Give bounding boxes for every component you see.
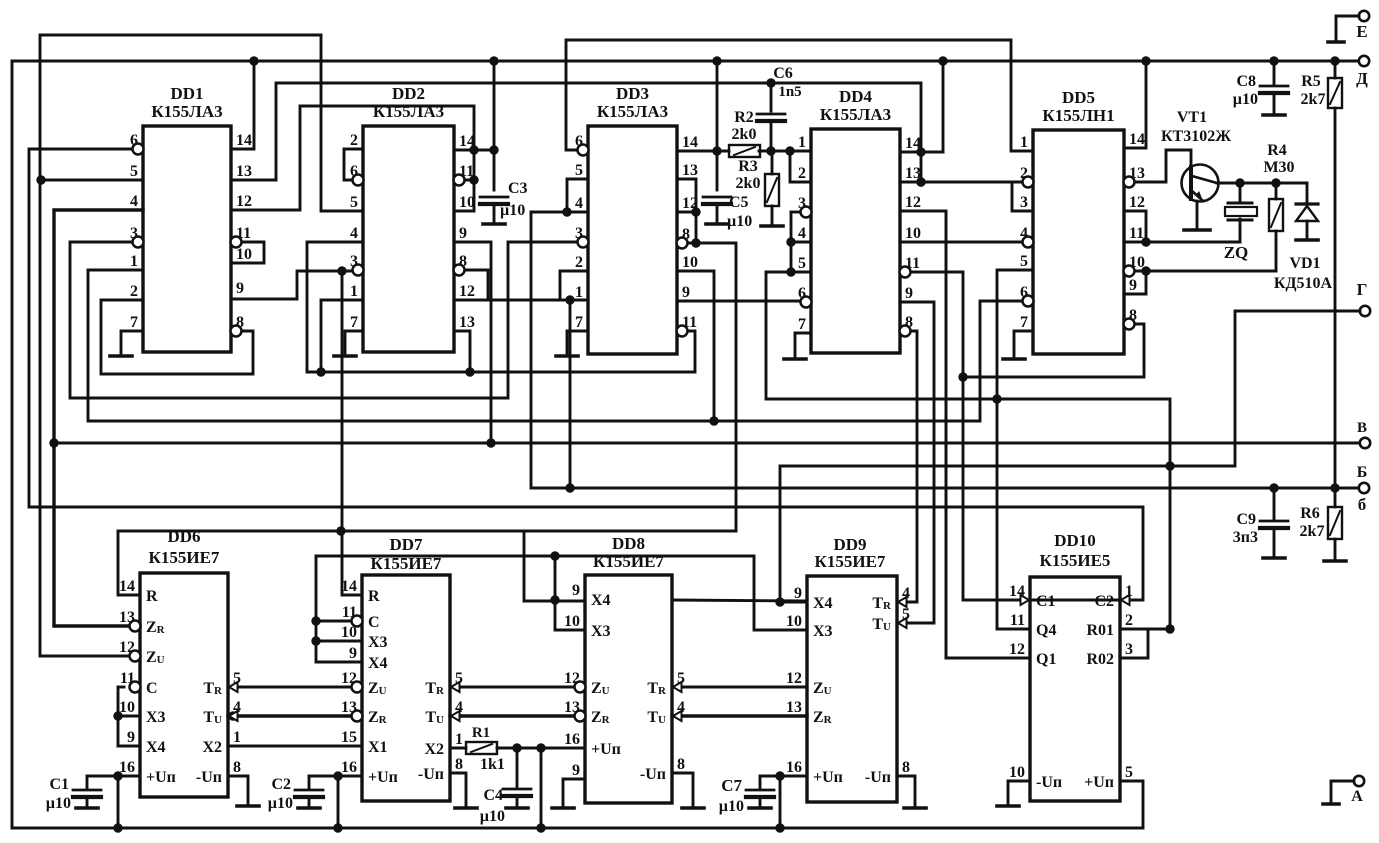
wire R5 bottom rail down to Б line bbox=[1334, 108, 1337, 489]
svg-text:10: 10 bbox=[236, 246, 252, 263]
svg-text:Q4: Q4 bbox=[1036, 622, 1056, 639]
IC DD7 К155ИЕ7 bbox=[362, 575, 450, 801]
wire DD7 +Un riser to bus bbox=[337, 776, 340, 828]
wire DD5.13 to VT1 base bbox=[1136, 150, 1191, 182]
wire net DD6.TR/DD7.ZU bbox=[228, 686, 351, 689]
svg-text:C4: C4 bbox=[483, 787, 503, 804]
wire DD2 pins 11-10-14 tie bbox=[454, 179, 474, 182]
wire net DD4.11/DD10.C1 bbox=[912, 272, 1030, 600]
svg-text:1: 1 bbox=[455, 731, 463, 748]
svg-text:16: 16 bbox=[119, 759, 135, 776]
svg-text:5: 5 bbox=[798, 255, 806, 272]
capacitor C9 3n3 bbox=[1273, 488, 1276, 519]
wire DD6 C-X3-X4 tie bbox=[118, 686, 124, 689]
svg-text:4: 4 bbox=[350, 225, 358, 242]
diode VD1 bbox=[1306, 183, 1309, 204]
crystal ZQ bbox=[1239, 183, 1242, 203]
wire net DD1.9/DD2.3/DD7.R bbox=[231, 271, 352, 299]
svg-text:+Uп: +Uп bbox=[368, 769, 398, 786]
svg-text:9: 9 bbox=[794, 585, 802, 602]
svg-text:2: 2 bbox=[130, 283, 138, 300]
svg-text:12: 12 bbox=[786, 670, 802, 687]
IC DD10 К155ИЕ5 bbox=[1030, 577, 1120, 801]
capacitor C8 bbox=[1273, 61, 1276, 84]
svg-text:DD8: DD8 bbox=[612, 534, 645, 553]
svg-text:5: 5 bbox=[1125, 764, 1133, 781]
svg-text:-Uп: -Uп bbox=[1036, 774, 1062, 791]
wire DD7 C-X3-X4 riser bbox=[315, 556, 318, 662]
svg-text:1: 1 bbox=[1020, 134, 1028, 151]
wire DD4.14 stub to +5V riser bbox=[900, 151, 943, 154]
wire DD2.9 down to B line bbox=[454, 242, 491, 443]
svg-text:К155ИЕ5: К155ИЕ5 bbox=[1040, 551, 1111, 570]
wire +5V riser to DD3.14 node bbox=[716, 61, 719, 151]
wire DD10 R01 stub bbox=[1120, 628, 1170, 631]
wire left vertical supply rail bbox=[11, 61, 14, 828]
svg-text:Д: Д bbox=[1356, 69, 1368, 88]
svg-text:14: 14 bbox=[236, 132, 252, 149]
ground DD7 -Un bbox=[450, 773, 466, 806]
resistor R6 2k7 bbox=[1334, 489, 1337, 507]
svg-text:5: 5 bbox=[350, 194, 358, 211]
svg-text:R01: R01 bbox=[1086, 622, 1114, 639]
terminal В bbox=[1360, 438, 1370, 448]
capacitor C5 bbox=[716, 151, 719, 190]
svg-text:9: 9 bbox=[236, 280, 244, 297]
svg-text:X1: X1 bbox=[368, 739, 388, 756]
svg-text:К155ИЕ7: К155ИЕ7 bbox=[815, 552, 886, 571]
wire DD2.1 joins under-box route bbox=[321, 300, 363, 372]
svg-text:5: 5 bbox=[575, 162, 583, 179]
IC DD6 К155ИЕ7 bbox=[140, 573, 228, 797]
svg-text:R3: R3 bbox=[738, 158, 758, 175]
ground DD8 -Un bbox=[672, 773, 693, 806]
svg-text:DD4: DD4 bbox=[839, 87, 873, 106]
svg-text:10: 10 bbox=[1009, 764, 1025, 781]
wire DD6 +Un riser to bus bbox=[117, 776, 120, 828]
svg-text:DD6: DD6 bbox=[167, 527, 200, 546]
svg-text:C3: C3 bbox=[508, 180, 528, 197]
wire net DD4.8/DD9.TR bbox=[897, 331, 917, 602]
ground DD2 pin7 bbox=[345, 331, 363, 354]
svg-text:В: В bbox=[1357, 420, 1367, 436]
terminal А bbox=[1354, 776, 1364, 786]
svg-text:Е: Е bbox=[1356, 22, 1367, 41]
svg-text:7: 7 bbox=[130, 314, 138, 331]
svg-text:DD1: DD1 bbox=[170, 84, 203, 103]
svg-text:9: 9 bbox=[572, 762, 580, 779]
svg-text:+Uп: +Uп bbox=[813, 769, 843, 786]
svg-text:10: 10 bbox=[786, 613, 802, 630]
svg-text:X4: X4 bbox=[368, 655, 388, 672]
resistor R3 bbox=[771, 151, 774, 174]
wire net DD3.6/DD5.1 (hat2) bbox=[566, 40, 1033, 151]
svg-text:9: 9 bbox=[1129, 277, 1137, 294]
svg-text:8: 8 bbox=[455, 756, 463, 773]
ground DD5 pin7 bbox=[1014, 331, 1033, 357]
svg-text:5: 5 bbox=[130, 163, 138, 180]
terminal Д bbox=[1359, 56, 1369, 66]
svg-text:К155ЛА3: К155ЛА3 bbox=[597, 102, 668, 121]
wire DD3 pins 5-4 loop bbox=[567, 179, 588, 212]
ground DD3 pin7 bbox=[567, 331, 588, 354]
svg-text:14: 14 bbox=[341, 578, 357, 595]
svg-text:1: 1 bbox=[575, 284, 583, 301]
svg-text:1k1: 1k1 bbox=[480, 756, 505, 773]
svg-text:12: 12 bbox=[682, 195, 698, 212]
svg-text:К155ЛА3: К155ЛА3 bbox=[151, 102, 222, 121]
svg-text:2k0: 2k0 bbox=[732, 126, 757, 143]
wire net DD7.TR/DD8.ZU bbox=[450, 686, 574, 689]
svg-text:M30: M30 bbox=[1263, 159, 1294, 176]
svg-text:µ10: µ10 bbox=[268, 795, 293, 812]
svg-text:1: 1 bbox=[233, 729, 241, 746]
wire net DD4.5/DD5.5/DD10.R01 (line y=399) bbox=[766, 272, 1170, 629]
svg-text:2: 2 bbox=[350, 132, 358, 149]
wire DD5 pins 2-3 loop bbox=[1012, 182, 1033, 211]
svg-text:К155ЛА3: К155ЛА3 bbox=[820, 105, 891, 124]
svg-text:R02: R02 bbox=[1086, 651, 1114, 668]
wire net DD5.5/DD10.Q4 bbox=[997, 270, 1033, 629]
svg-text:DD7: DD7 bbox=[389, 535, 423, 554]
IC DD2 К155ЛА3 bbox=[363, 126, 454, 352]
svg-text:DD2: DD2 bbox=[392, 84, 425, 103]
svg-text:µ10: µ10 bbox=[727, 213, 752, 230]
svg-text:К155ЛА3: К155ЛА3 bbox=[373, 102, 444, 121]
svg-text:15: 15 bbox=[341, 729, 357, 746]
wire net DD8.TR/DD9.ZU bbox=[672, 686, 807, 689]
wire net DD6.X2/DD7.X1 bbox=[228, 745, 362, 748]
svg-text:C2: C2 bbox=[271, 776, 291, 793]
svg-text:10: 10 bbox=[119, 699, 135, 716]
resistor R1 1k1 and DD8 +Un node bbox=[450, 747, 466, 750]
svg-text:16: 16 bbox=[564, 731, 580, 748]
bottom +5V bus bbox=[12, 781, 1143, 828]
svg-text:К155ИЕ7: К155ИЕ7 bbox=[371, 554, 442, 573]
wire DD6 +Un stub and capacitor C1 bbox=[87, 775, 140, 778]
svg-text:10: 10 bbox=[459, 194, 475, 211]
svg-text:2: 2 bbox=[798, 165, 806, 182]
svg-text:µ10: µ10 bbox=[46, 795, 71, 812]
svg-text:9: 9 bbox=[459, 225, 467, 242]
wire vertical to Б line bbox=[569, 300, 572, 488]
wire DD3.10 down to y421 line bbox=[677, 271, 714, 421]
IC DD4 К155ЛА3 bbox=[811, 129, 900, 353]
svg-text:9: 9 bbox=[349, 645, 357, 662]
svg-text:А: А bbox=[1351, 788, 1363, 805]
svg-text:2: 2 bbox=[1125, 612, 1133, 629]
capacitor C6 bbox=[770, 83, 773, 111]
wire DD3.4 riser to Б line bbox=[530, 212, 533, 488]
wire DD4 pins 1-2 loop bbox=[790, 151, 811, 182]
svg-text:X3: X3 bbox=[813, 623, 833, 640]
wire net DD1.13/C6/DD4.14 (line y=83) bbox=[231, 83, 921, 182]
svg-text:µ10: µ10 bbox=[480, 808, 505, 825]
wire DD2 pins 8-12 loop bbox=[454, 270, 488, 300]
svg-text:2k7: 2k7 bbox=[1301, 91, 1326, 108]
svg-text:8: 8 bbox=[677, 756, 685, 773]
svg-text:14: 14 bbox=[459, 133, 475, 150]
svg-text:16: 16 bbox=[786, 759, 802, 776]
svg-text:16: 16 bbox=[341, 759, 357, 776]
wire DD9 +Un riser to bus bbox=[779, 776, 782, 828]
wire DD2.14 to +5V and C3 bbox=[493, 61, 496, 190]
svg-text:R1: R1 bbox=[472, 725, 490, 741]
svg-text:C6: C6 bbox=[773, 65, 793, 82]
terminal Е bbox=[1359, 11, 1369, 21]
svg-text:Q1: Q1 bbox=[1036, 651, 1056, 668]
svg-text:9: 9 bbox=[127, 729, 135, 746]
wire DD1.14 to +5V bbox=[231, 61, 254, 149]
wire DD3 pins 2-1 loop bbox=[560, 271, 588, 300]
svg-text:8: 8 bbox=[902, 759, 910, 776]
svg-text:14: 14 bbox=[905, 135, 921, 152]
svg-text:14: 14 bbox=[1129, 131, 1145, 148]
ground DD9 -Un bbox=[897, 776, 915, 806]
svg-text:Г: Г bbox=[1357, 280, 1368, 299]
wire net B: DD2.9/DD1.4 junction to terminal В bbox=[54, 442, 1359, 445]
terminal Б bbox=[1359, 483, 1369, 493]
svg-text:13: 13 bbox=[236, 163, 252, 180]
wire net DD8 right to DD9.X4 bbox=[672, 600, 807, 601]
svg-text:7: 7 bbox=[350, 314, 358, 331]
svg-text:X4: X4 bbox=[813, 595, 833, 612]
wire DD7 +Un stub and capacitor C2 bbox=[309, 775, 362, 778]
top +5V power rail (to terminal Д) bbox=[12, 60, 1364, 63]
svg-text:12: 12 bbox=[1129, 194, 1145, 211]
wire net DD1.3/DD3.3 (line y=398) bbox=[70, 242, 582, 398]
svg-text:КТ3102Ж: КТ3102Ж bbox=[1161, 128, 1231, 145]
svg-text:1: 1 bbox=[798, 134, 806, 151]
svg-text:µ10: µ10 bbox=[1233, 91, 1258, 108]
wire DD2.4 under-box route to DD3.11 bbox=[307, 242, 695, 372]
wire net DD7.TU/DD8.ZR bbox=[450, 714, 574, 717]
svg-text:R2: R2 bbox=[734, 109, 754, 126]
svg-text:+Uп: +Uп bbox=[1084, 774, 1114, 791]
svg-text:7: 7 bbox=[575, 314, 583, 331]
wire DD1 pin5 stub bbox=[41, 179, 143, 182]
wire DD8 +Un riser to bus bbox=[540, 748, 543, 828]
svg-text:C1: C1 bbox=[1036, 593, 1056, 610]
svg-text:3п3: 3п3 bbox=[1233, 529, 1258, 546]
svg-text:X2: X2 bbox=[202, 739, 222, 756]
svg-text:Б: Б bbox=[1357, 464, 1368, 481]
svg-text:+Uп: +Uп bbox=[146, 769, 176, 786]
svg-text:C7: C7 bbox=[721, 776, 742, 795]
capacitor C3 bbox=[480, 196, 508, 199]
wire net DD2.12/DD3.1 bbox=[454, 299, 588, 302]
wire DD9 +Un stub and capacitor C7 bbox=[760, 775, 807, 778]
wire DD3 pins 13-12 tie down to pin8 net bbox=[677, 178, 696, 181]
svg-text:C: C bbox=[146, 680, 158, 697]
svg-text:X3: X3 bbox=[368, 634, 388, 651]
wire vertical DD2.3 down to DD7.R bbox=[342, 271, 362, 595]
svg-text:VT1: VT1 bbox=[1177, 109, 1207, 126]
ground DD6 -Un bbox=[228, 776, 248, 804]
wire net DD4.12/DD10.Q1 bbox=[900, 211, 1030, 658]
wire R4 bottom lead bbox=[1275, 231, 1278, 271]
svg-text:13: 13 bbox=[786, 699, 802, 716]
svg-text:9: 9 bbox=[905, 285, 913, 302]
svg-text:10: 10 bbox=[905, 225, 921, 242]
svg-text:-Uп: -Uп bbox=[865, 769, 891, 786]
svg-text:7: 7 bbox=[1020, 314, 1028, 331]
svg-text:8: 8 bbox=[233, 759, 241, 776]
svg-text:9: 9 bbox=[682, 284, 690, 301]
svg-text:-Uп: -Uп bbox=[640, 766, 666, 783]
ground DD1 pin7 bbox=[121, 331, 143, 354]
svg-text:К155ЛН1: К155ЛН1 bbox=[1042, 106, 1114, 125]
wire DD8.X3 riser bbox=[555, 556, 585, 630]
svg-text:12: 12 bbox=[1009, 641, 1025, 658]
wire DD5.8 to DD4.11 net bbox=[963, 324, 1144, 377]
svg-text:10: 10 bbox=[564, 613, 580, 630]
wire net DD4.9/DD9.TU bbox=[897, 302, 934, 623]
wire net DD1.5/DD2.5/DD6.ZU (top hat) bbox=[40, 35, 321, 656]
svg-text:DD5: DD5 bbox=[1062, 88, 1095, 107]
wire DD6.R riser bbox=[118, 531, 140, 595]
wire net DD1.2/DD1.8 loop under DD1 bbox=[101, 300, 253, 374]
svg-text:X4: X4 bbox=[146, 739, 166, 756]
terminal Г and reset net bbox=[1360, 306, 1370, 316]
svg-text:+Uп: +Uп bbox=[591, 741, 621, 758]
wire DD5 pins 12-11 tie and ZQ bottom bbox=[1124, 210, 1146, 213]
svg-text:14: 14 bbox=[119, 578, 135, 595]
wire hat right leg to DD2 pin5 bbox=[321, 35, 363, 211]
svg-text:1: 1 bbox=[130, 253, 138, 270]
svg-text:12: 12 bbox=[236, 193, 252, 210]
svg-text:13: 13 bbox=[905, 165, 921, 182]
wire net DD1.1/DD3.10/DD5.6 (long line y=421) bbox=[88, 270, 1022, 421]
svg-text:X4: X4 bbox=[591, 592, 611, 609]
svg-text:5: 5 bbox=[1020, 253, 1028, 270]
wire riser to DD8.X4 bbox=[524, 531, 585, 601]
svg-text:7: 7 bbox=[798, 316, 806, 333]
svg-text:3: 3 bbox=[1020, 194, 1028, 211]
svg-text:10: 10 bbox=[682, 254, 698, 271]
wire net Б line to terminal Б bbox=[531, 487, 1359, 490]
wire net DD4.13/DD5.2 bbox=[900, 181, 1022, 184]
svg-text:9: 9 bbox=[572, 582, 580, 599]
svg-text:11: 11 bbox=[1129, 225, 1144, 242]
svg-text:2k0: 2k0 bbox=[736, 175, 761, 192]
resistor R5 2k7 bbox=[1334, 61, 1337, 78]
svg-text:3: 3 bbox=[1125, 641, 1133, 658]
wire net DD4.10/DD5.4 bbox=[900, 241, 1022, 244]
svg-text:14: 14 bbox=[682, 134, 698, 151]
svg-text:11: 11 bbox=[1010, 612, 1025, 629]
wire DD2.13 down to y376 line bbox=[454, 331, 470, 372]
svg-text:X3: X3 bbox=[591, 623, 611, 640]
wire net DD1.6 to DD10.C2 (long bus) bbox=[29, 149, 1143, 600]
wire VT1 emitter lead bbox=[1196, 201, 1199, 228]
svg-text:б: б bbox=[1358, 495, 1367, 514]
IC DD1 К155ЛА3 bbox=[143, 126, 231, 352]
svg-text:1n5: 1n5 bbox=[778, 84, 801, 100]
svg-text:VD1: VD1 bbox=[1289, 255, 1320, 272]
IC DD8 К155ИЕ7 bbox=[585, 575, 672, 803]
resistor R2 bbox=[729, 145, 760, 157]
ground DD10 -Un bbox=[1008, 781, 1030, 804]
svg-text:4: 4 bbox=[575, 195, 583, 212]
svg-text:10: 10 bbox=[341, 624, 357, 641]
svg-text:µ10: µ10 bbox=[719, 798, 744, 815]
wire net DD8.TU/DD9.ZR bbox=[672, 714, 807, 717]
svg-text:C8: C8 bbox=[1236, 73, 1256, 90]
svg-text:13: 13 bbox=[459, 314, 475, 331]
IC DD5 К155ЛН1 bbox=[1033, 130, 1124, 354]
svg-text:C9: C9 bbox=[1236, 511, 1256, 528]
svg-text:ZQ: ZQ bbox=[1224, 243, 1249, 262]
svg-text:C2: C2 bbox=[1094, 593, 1114, 610]
transistor VT1 KT3102Zh bbox=[1182, 165, 1219, 202]
svg-text:КД510А: КД510А bbox=[1274, 275, 1333, 292]
wire net DD1.4/DD6.ZR bbox=[54, 210, 143, 626]
IC DD3 К155ЛА3 bbox=[588, 126, 677, 354]
svg-text:-Uп: -Uп bbox=[196, 769, 222, 786]
svg-text:C1: C1 bbox=[49, 776, 69, 793]
svg-text:4: 4 bbox=[798, 225, 806, 242]
wire DD3.14/R2/DD4.1 line bbox=[677, 150, 729, 153]
svg-text:X2: X2 bbox=[424, 741, 444, 758]
svg-text:-Uп: -Uп bbox=[418, 766, 444, 783]
svg-text:C: C bbox=[368, 614, 380, 631]
wire DD9.X3 riser bbox=[754, 556, 807, 630]
wire DD3.8 down to R line bbox=[689, 243, 736, 531]
svg-text:X3: X3 bbox=[146, 709, 166, 726]
wire ZQ bottom lead bbox=[1239, 219, 1242, 242]
svg-text:4: 4 bbox=[130, 193, 138, 210]
wire DD2 pins 2-6 loop bbox=[344, 149, 363, 180]
wire DD4 pins 3-4-5 tie bbox=[791, 211, 800, 214]
svg-text:К155ИЕ7: К155ИЕ7 bbox=[593, 552, 664, 571]
svg-text:12: 12 bbox=[459, 283, 475, 300]
svg-text:R6: R6 bbox=[1300, 505, 1320, 522]
svg-text:C5: C5 bbox=[729, 194, 749, 211]
wire DD1 pins 11-10 loop bbox=[231, 242, 264, 263]
capacitor C4 bbox=[516, 748, 519, 787]
wire X-hat DD7.C/DD8.X3/DD9.X3 bbox=[316, 555, 754, 558]
svg-text:R5: R5 bbox=[1301, 73, 1321, 90]
ground DD8 pin9 bottom bbox=[563, 779, 585, 806]
wire VT1 collector line bbox=[1217, 182, 1307, 185]
svg-text:µ10: µ10 bbox=[500, 202, 525, 219]
wire net DD6.TU/DD7.ZR bbox=[228, 714, 351, 717]
svg-text:DD10: DD10 bbox=[1054, 531, 1096, 550]
svg-text:2: 2 bbox=[575, 254, 583, 271]
wire DD10 R02 loop bbox=[1120, 629, 1148, 658]
svg-text:12: 12 bbox=[905, 194, 921, 211]
ground DD4 pin7 bbox=[795, 333, 811, 357]
svg-text:2k7: 2k7 bbox=[1300, 523, 1325, 540]
wire net DD1.12/DD2.14 (line y=106) bbox=[231, 106, 474, 210]
resistor R4 M30 bbox=[1275, 183, 1278, 199]
svg-text:1: 1 bbox=[350, 283, 358, 300]
wire DD5 pins 10-9 tie and R4 bottom bbox=[1136, 270, 1276, 273]
wire DD5.14 to +5V bbox=[1124, 61, 1146, 148]
svg-text:R: R bbox=[368, 588, 380, 605]
svg-text:R4: R4 bbox=[1267, 142, 1287, 159]
wire net DD3.9/DD4.6 bbox=[677, 300, 811, 303]
svg-text:13: 13 bbox=[682, 162, 698, 179]
svg-text:DD3: DD3 bbox=[616, 84, 649, 103]
svg-text:К155ИЕ7: К155ИЕ7 bbox=[149, 548, 220, 567]
svg-text:R: R bbox=[146, 588, 158, 605]
IC DD9 К155ИЕ7 bbox=[807, 576, 897, 802]
wire R-hat DD6.R/DD7.R/DD8.X4/DD3.8 bbox=[118, 530, 736, 533]
